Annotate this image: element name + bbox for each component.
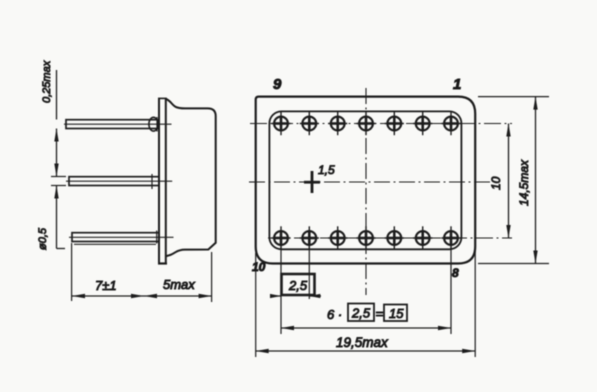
svg-text:7±1: 7±1: [95, 278, 117, 293]
side view body outline: [166, 99, 216, 256]
dimension 6·2,5=15: [281, 304, 451, 331]
horizontal centerline: [249, 181, 490, 183]
svg-text:8: 8: [452, 266, 459, 280]
top view inner outline: [269, 111, 461, 249]
svg-text:1,5: 1,5: [318, 163, 335, 177]
svg-text:5max: 5max: [163, 277, 195, 292]
svg-text:=: =: [376, 306, 384, 321]
svg-text:9: 9: [273, 76, 282, 93]
svg-text:15: 15: [389, 306, 404, 321]
pin 2 (side view): [66, 174, 172, 189]
bottom pin row (7 pins): [271, 226, 460, 249]
side view flange: [158, 98, 167, 264]
top view outer outline: [256, 97, 476, 264]
pin 1 (side view): [64, 117, 172, 132]
svg-text:19,5max: 19,5max: [336, 335, 389, 350]
dimension 14,5max (overall height, right side): [478, 97, 549, 264]
dimension ø0,5 (pin diameter): [37, 177, 66, 251]
top pin row (7 pins): [271, 112, 460, 135]
bottom pin row centerline: [268, 237, 512, 239]
dimension 19,5max (overall width): [256, 250, 476, 357]
svg-text:0,25max: 0,25max: [41, 60, 53, 103]
extension lines below pins 10, 9, 8 and centre: [281, 246, 451, 335]
svg-text:10: 10: [252, 260, 266, 274]
top pin row centerline: [250, 123, 512, 125]
dimension 2,5 box (pin pitch callout): [270, 274, 321, 298]
dimension 0,25max (pin thickness): [41, 60, 59, 176]
svg-text:6 ·: 6 ·: [327, 307, 342, 322]
dimension 7±1 and 5max (bottom of side view): [72, 243, 212, 302]
vertical centerline: [365, 88, 367, 295]
svg-text:1: 1: [453, 76, 461, 93]
svg-text:10: 10: [489, 176, 503, 190]
svg-text:2,5: 2,5: [288, 278, 308, 293]
svg-text:2,5: 2,5: [351, 306, 371, 321]
svg-text:ø0,5: ø0,5: [37, 227, 49, 250]
svg-text:14,5max: 14,5max: [517, 159, 531, 206]
pin 3 (side view): [69, 231, 174, 245]
center mark with 1,5 label: [304, 163, 335, 193]
dimension 10 (row spacing, right side): [489, 124, 511, 239]
